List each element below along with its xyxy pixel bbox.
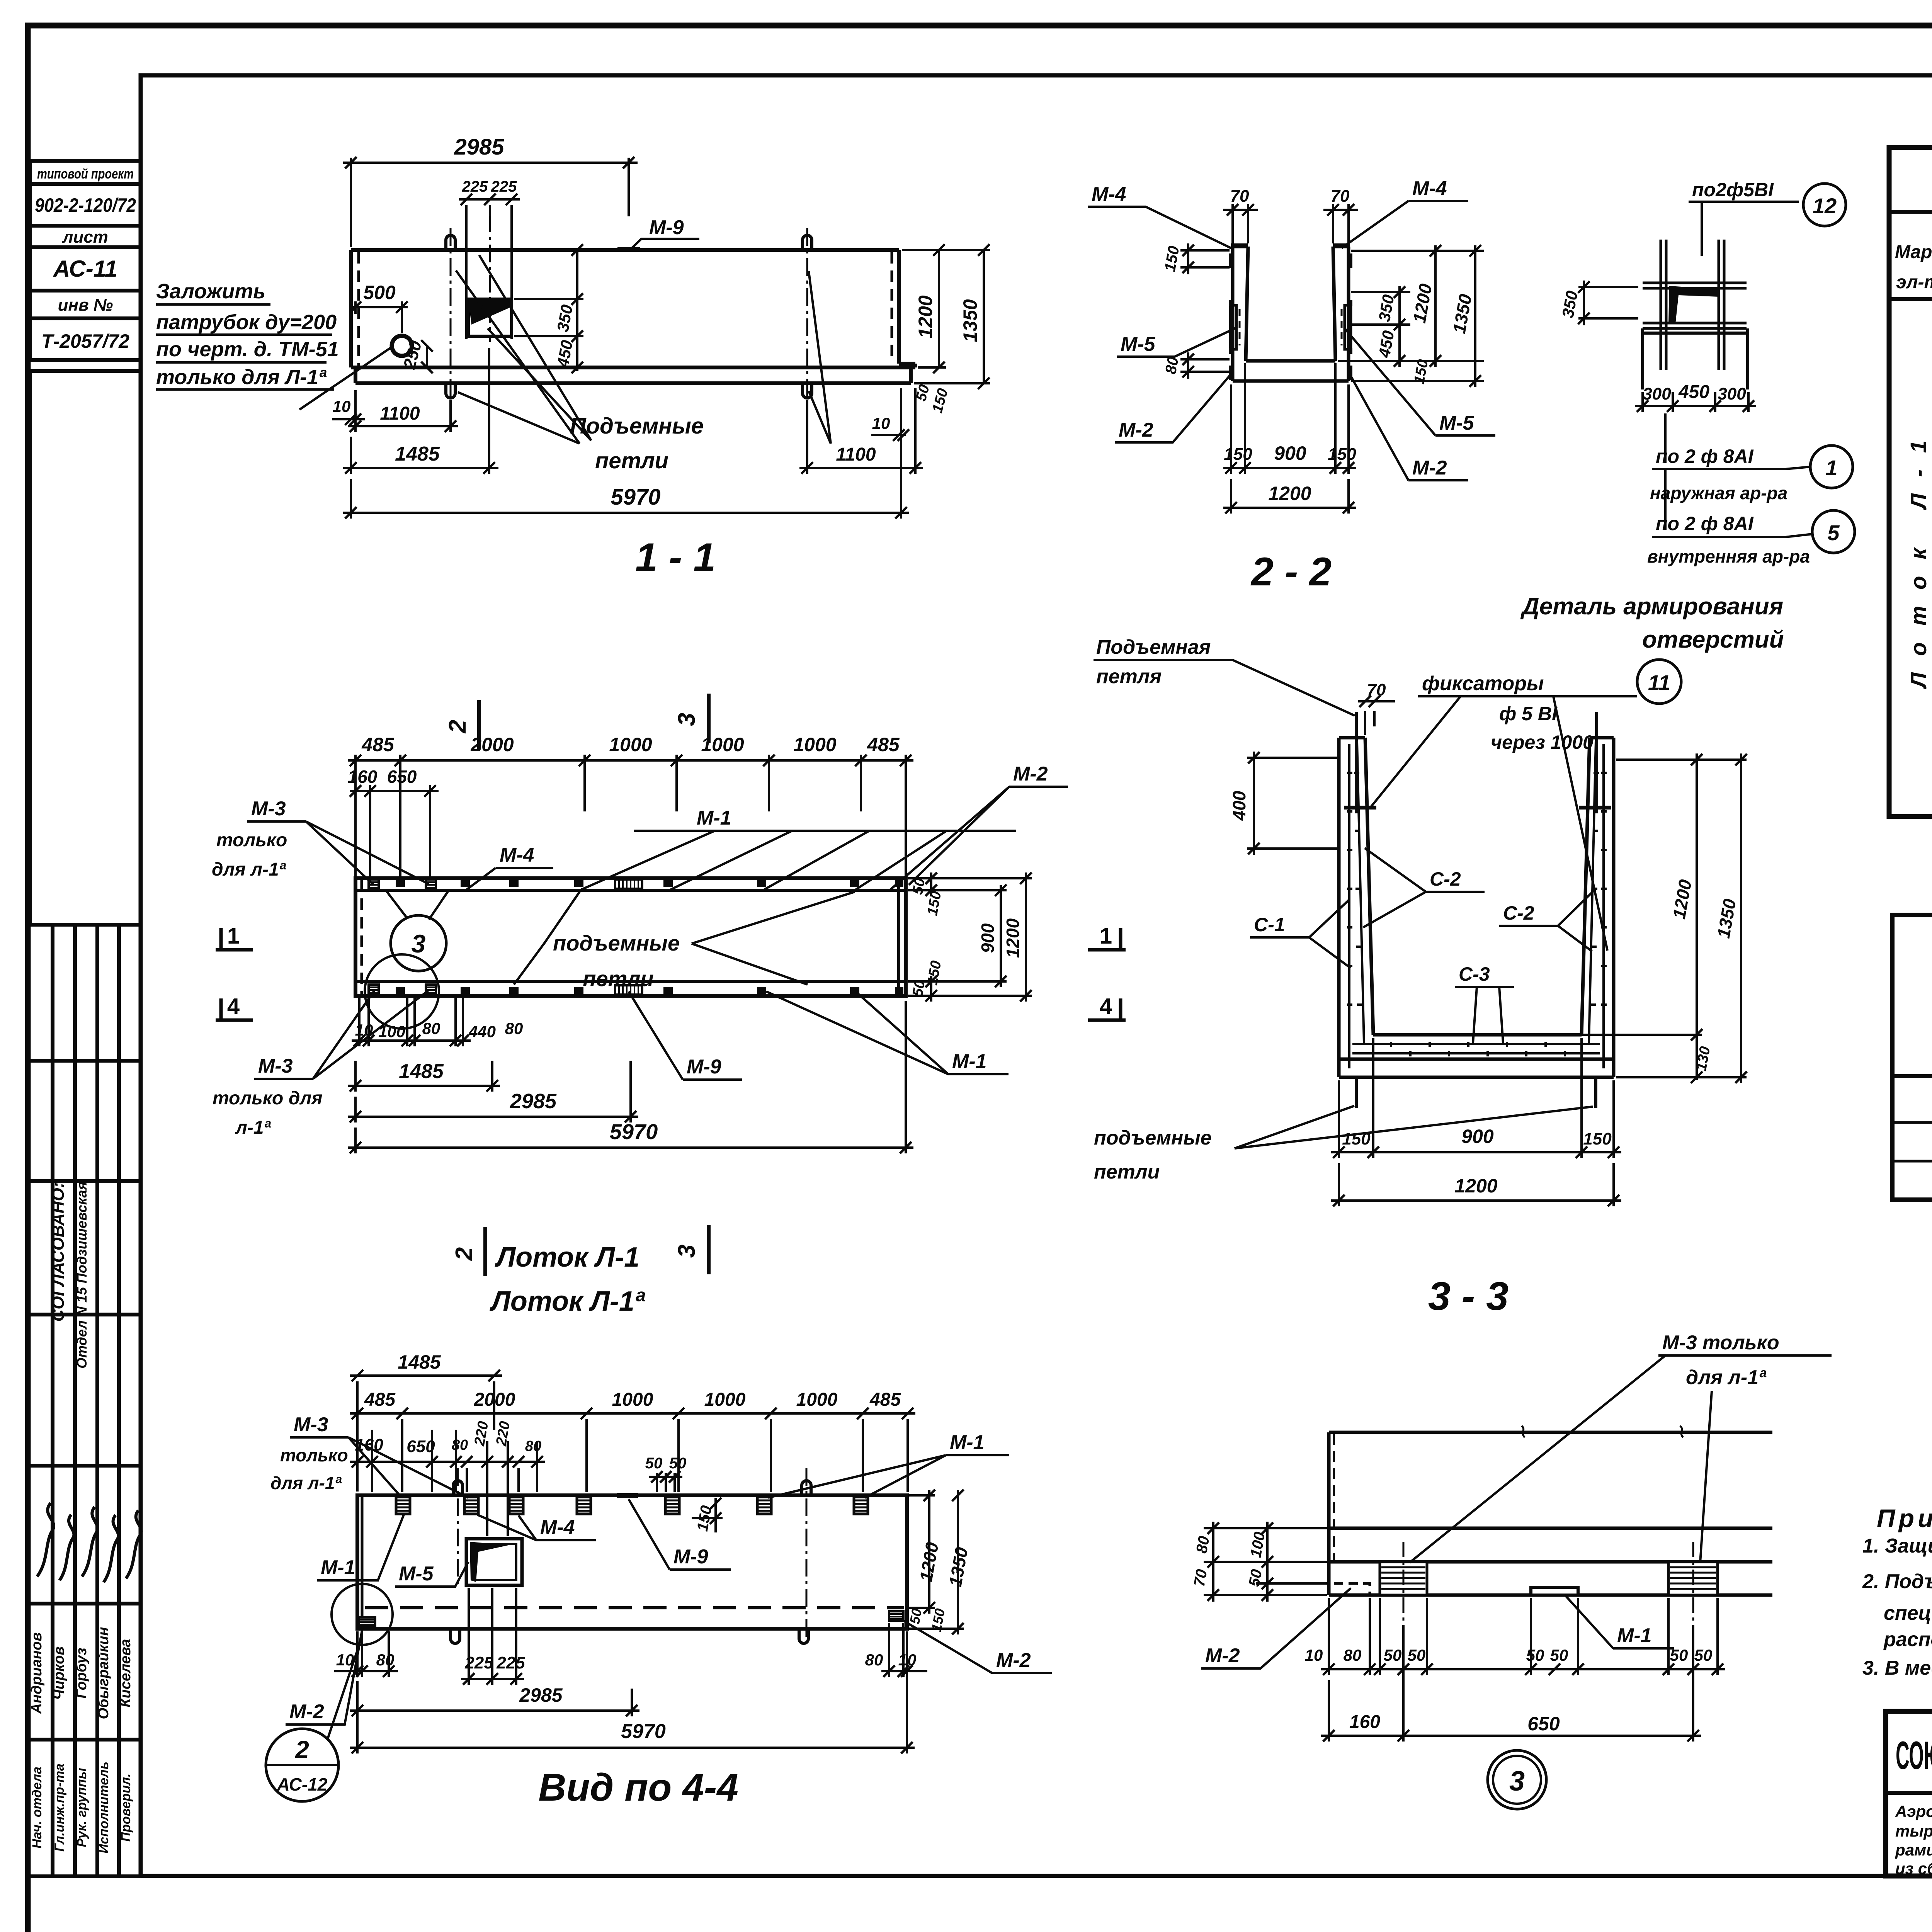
- svg-text:М-1: М-1: [952, 1050, 987, 1073]
- svg-text:3: 3: [673, 713, 700, 726]
- dims 300 450 300: [1635, 392, 1756, 412]
- svg-text:отверстий: отверстий: [1642, 626, 1784, 653]
- svg-text:485: 485: [869, 1389, 901, 1410]
- svg-text:М-1: М-1: [950, 1431, 985, 1454]
- svg-text:М-5: М-5: [1439, 412, 1475, 434]
- dims 150 80 left: [1180, 243, 1230, 379]
- dims 350 450 at plate: [514, 244, 583, 373]
- svg-text:М-2: М-2: [1412, 457, 1447, 479]
- svg-text:распора на стенки лотка.: распора на стенки лотка.: [1883, 1628, 1932, 1651]
- svg-text:1200: 1200: [1003, 918, 1023, 958]
- svg-text:3: 3: [1509, 1766, 1525, 1797]
- svg-text:М-1: М-1: [321, 1556, 355, 1579]
- svg-text:50: 50: [910, 877, 929, 896]
- svg-text:1000: 1000: [701, 734, 744, 755]
- svg-text:петли: петли: [1094, 1161, 1160, 1183]
- M-5 opening square: [466, 1539, 522, 1585]
- table: Выборка арматурных и закладных изделий: [1889, 146, 1932, 816]
- svg-text:1100: 1100: [836, 444, 876, 465]
- svg-text:для л-1ª: для л-1ª: [212, 859, 286, 880]
- svg-text:1000: 1000: [704, 1389, 746, 1410]
- svg-text:80: 80: [1193, 1535, 1213, 1554]
- svg-text:СОЮЗВОДОКАНАЛПРОЕКТ: СОЮЗВОДОКАНАЛПРОЕКТ: [1896, 1733, 1932, 1777]
- svg-text:1: 1: [227, 923, 240, 949]
- svg-text:70: 70: [1191, 1568, 1211, 1588]
- svg-text:2. Подъем лотка за верхние: 2. Подъем лотка за верхние петли осущест…: [1862, 1570, 1932, 1593]
- svg-text:902-2-120/72: 902-2-120/72: [35, 194, 136, 216]
- M-9 mark on top edge: [617, 247, 640, 252]
- svg-text:2: 2: [444, 720, 471, 733]
- svg-text:АС-12: АС-12: [277, 1774, 328, 1794]
- svg-text:патрубок ду=200: патрубок ду=200: [156, 311, 337, 334]
- svg-text:по2ф5ВІ: по2ф5ВІ: [1692, 179, 1774, 201]
- svg-text:Проверил.: Проверил.: [119, 1774, 133, 1842]
- beam outline 1-1: [351, 250, 915, 383]
- M-2 plate in node circle: [359, 1617, 375, 1626]
- svg-text:450: 450: [1678, 382, 1709, 402]
- svg-text:4: 4: [227, 994, 240, 1019]
- svg-text:Вид по 4-4: Вид по 4-4: [538, 1766, 738, 1809]
- svg-text:С-2: С-2: [1503, 902, 1534, 924]
- svg-text:650: 650: [406, 1437, 435, 1456]
- table: Выборка стали на 1 элемент: [1892, 886, 1932, 1200]
- bottom small dims 10 100 80 440 80: [352, 998, 471, 1046]
- svg-text:Заложить: Заложить: [156, 280, 265, 303]
- svg-text:10: 10: [333, 397, 351, 415]
- walls and slab outline 2-2: [1233, 247, 1349, 381]
- centerlines: [451, 214, 807, 431]
- sidebar titles: [30, 1762, 133, 1854]
- notes: Примечания: [1862, 1504, 1932, 1679]
- svg-text:Деталь армирования: Деталь армирования: [1520, 593, 1783, 620]
- svg-text:50: 50: [1694, 1646, 1713, 1664]
- svg-text:для л-1ª: для л-1ª: [1686, 1366, 1767, 1389]
- node circle 2 AC-12: [266, 1729, 338, 1801]
- svg-text:1: 1: [1825, 456, 1837, 480]
- svg-text:из сборного железобетона: из сборного железобетона: [1895, 1859, 1932, 1878]
- svg-text:Марка: Марка: [1895, 242, 1932, 262]
- svg-text:1485: 1485: [398, 1351, 441, 1373]
- svg-text:М-3: М-3: [294, 1413, 328, 1436]
- title block: [1886, 1711, 1932, 1878]
- svg-text:1000: 1000: [793, 734, 836, 755]
- dim 500: [350, 301, 408, 333]
- svg-text:М-4: М-4: [500, 844, 534, 866]
- svg-text:1200: 1200: [1454, 1175, 1497, 1197]
- svg-text:инв №: инв №: [58, 296, 113, 315]
- svg-text:50: 50: [906, 1607, 925, 1626]
- svg-text:М-2: М-2: [996, 1649, 1031, 1672]
- concrete outline 3-3: [1339, 738, 1614, 1077]
- svg-text:по 2 ф 8АІ: по 2 ф 8АІ: [1656, 446, 1754, 467]
- node circle 3 big: [1488, 1750, 1546, 1809]
- svg-text:1200: 1200: [915, 295, 936, 338]
- svg-text:М-4: М-4: [540, 1516, 575, 1539]
- plates on top wall: [369, 879, 903, 889]
- svg-text:АС-11: АС-11: [53, 256, 117, 282]
- svg-text:лист: лист: [62, 228, 108, 247]
- svg-text:485: 485: [361, 734, 395, 755]
- lifting loops 4-4: [453, 1481, 463, 1495]
- centerlines: [458, 1468, 806, 1642]
- svg-text:Лоток Л-1ª: Лоток Л-1ª: [489, 1286, 645, 1317]
- svg-text:150: 150: [1224, 445, 1252, 464]
- svg-text:2 - 2: 2 - 2: [1250, 549, 1332, 594]
- svg-text:2: 2: [295, 1736, 309, 1764]
- svg-text:150: 150: [1328, 445, 1356, 464]
- svg-text:1350: 1350: [959, 299, 981, 342]
- svg-text:485: 485: [867, 734, 900, 755]
- wall mesh C-1 C-2: [1347, 741, 1607, 1068]
- view 4-4: [266, 1351, 1052, 1809]
- slab lines: [1329, 1432, 1772, 1595]
- svg-text:Нач. отдела: Нач. отдела: [30, 1767, 44, 1849]
- svg-text:5970: 5970: [611, 485, 660, 510]
- detail node 3: bottom slab corner: [1191, 1332, 1832, 1809]
- right side dims 50 150 900 1200: [908, 872, 1032, 1002]
- svg-text:160: 160: [348, 767, 378, 787]
- dim 350 detail: [1578, 281, 1638, 325]
- svg-text:80: 80: [1162, 355, 1182, 375]
- svg-text:наружная ар-ра: наружная ар-ра: [1650, 483, 1787, 503]
- svg-text:2000: 2000: [474, 1389, 515, 1410]
- svg-text:650: 650: [387, 767, 417, 787]
- svg-text:900: 900: [1274, 442, 1306, 464]
- svg-text:СОГЛАСОВАНО:: СОГЛАСОВАНО:: [49, 1182, 68, 1322]
- svg-text:только: только: [216, 830, 287, 850]
- svg-text:М-9: М-9: [649, 216, 684, 239]
- chain 485 2000 1000 1000 1000 485: [350, 1408, 915, 1492]
- svg-text:300: 300: [1643, 384, 1671, 403]
- svg-text:500: 500: [363, 282, 396, 303]
- svg-text:Аэротенки-смесители че-: Аэротенки-смесители че-: [1895, 1802, 1932, 1820]
- dims 160 650: [1321, 1625, 1701, 1742]
- svg-text:М-5: М-5: [1121, 333, 1156, 355]
- svg-text:80: 80: [525, 1438, 541, 1454]
- plan outline: [355, 878, 906, 996]
- svg-text:5970: 5970: [621, 1720, 666, 1743]
- svg-text:фиксаторы: фиксаторы: [1422, 672, 1544, 695]
- rebar bars: [1661, 240, 1724, 370]
- svg-text:Лоток Л-1: Лоток Л-1: [495, 1242, 639, 1273]
- node circle around bottom-left plate: [365, 954, 439, 1029]
- form joints dashed: [359, 252, 892, 366]
- beam outline 4-4: [357, 1495, 907, 1629]
- svg-text:М-1: М-1: [1617, 1624, 1652, 1647]
- sidebar box texts: [35, 166, 136, 352]
- svg-text:3: 3: [673, 1245, 700, 1258]
- svg-text:Примечания:: Примечания:: [1877, 1504, 1932, 1532]
- svg-text:80: 80: [865, 1651, 883, 1669]
- svg-text:150: 150: [1583, 1129, 1612, 1148]
- svg-text:тырехкоридорные с разме-: тырехкоридорные с разме-: [1895, 1822, 1932, 1840]
- svg-text:1000: 1000: [609, 734, 652, 755]
- svg-text:только: только: [280, 1445, 348, 1465]
- leader from plate M-5 down: [479, 255, 591, 440]
- hatched plates on top edge: [396, 1497, 410, 1514]
- svg-text:М-9: М-9: [687, 1056, 721, 1078]
- svg-text:М-3: М-3: [251, 798, 286, 820]
- svg-text:ф 5 ВІ: ф 5 ВІ: [1499, 703, 1558, 724]
- svg-text:только для: только для: [213, 1088, 323, 1109]
- bottom dims 150 900 150 / 1200: [1331, 1038, 1621, 1206]
- svg-text:440: 440: [468, 1022, 496, 1041]
- svg-text:3 - 3: 3 - 3: [1428, 1274, 1509, 1319]
- hatched M-3 plates: [1380, 1562, 1427, 1595]
- svg-text:М-9: М-9: [673, 1546, 708, 1568]
- svg-text:Подъемная: Подъемная: [1096, 636, 1211, 658]
- svg-text:Исполнитель: Исполнитель: [97, 1762, 111, 1854]
- left dims 80 100 70 50: [1204, 1522, 1327, 1602]
- svg-text:эл-та: эл-та: [1896, 272, 1932, 293]
- svg-text:2000: 2000: [470, 734, 514, 755]
- plan view of trough: [212, 694, 1126, 1317]
- svg-text:петли: петли: [583, 966, 653, 991]
- right dims 1200 1350 50 150: [906, 1490, 964, 1634]
- right side dims 350 450 1200 1350 150: [1338, 245, 1484, 387]
- svg-text:для л-1ª: для л-1ª: [270, 1473, 342, 1493]
- svg-text:1000: 1000: [796, 1389, 838, 1410]
- svg-text:Чирков: Чирков: [51, 1646, 67, 1700]
- svg-text:50: 50: [1550, 1646, 1568, 1664]
- svg-text:5970: 5970: [610, 1119, 658, 1144]
- svg-text:типовой проект: типовой проект: [37, 166, 134, 182]
- dim 400 left: [1247, 752, 1339, 855]
- plates on bottom wall: [369, 985, 903, 995]
- svg-text:1000: 1000: [612, 1389, 653, 1410]
- svg-text:рами коридора 9×5,2× 120: рами коридора 9×5,2× 120: [1895, 1841, 1932, 1859]
- svg-text:Киселева: Киселева: [117, 1639, 134, 1707]
- svg-text:1. Защитный слой бетона - 20: 1. Защитный слой бетона - 20: [1862, 1535, 1932, 1557]
- svg-text:10: 10: [1305, 1646, 1323, 1664]
- dim 225 225: [459, 194, 520, 339]
- svg-text:4: 4: [1100, 994, 1112, 1019]
- svg-text:1 - 1: 1 - 1: [635, 535, 716, 580]
- dim 1485 top: [350, 1370, 502, 1492]
- svg-text:только для Л-1ª: только для Л-1ª: [156, 366, 327, 389]
- svg-text:1485: 1485: [399, 1060, 444, 1083]
- svg-text:М-2: М-2: [1119, 419, 1153, 441]
- svg-text:петли: петли: [595, 448, 668, 473]
- bottom dims 150 900 150 / 1200: [1223, 363, 1356, 514]
- svg-text:Обыграйкин: Обыграйкин: [95, 1627, 112, 1719]
- embedded plate M-5 with weld wedge: [468, 299, 512, 336]
- dim 250: [421, 340, 433, 373]
- svg-text:М-4: М-4: [1092, 183, 1126, 206]
- sidebar rotated approval texts: [49, 1182, 90, 1369]
- svg-text:подъемные: подъемные: [553, 931, 680, 955]
- svg-text:петля: петля: [1096, 665, 1162, 688]
- svg-text:1485: 1485: [395, 443, 440, 465]
- svg-text:400: 400: [1229, 791, 1249, 821]
- sidebar names: [29, 1627, 134, 1719]
- svg-text:подъемные: подъемные: [1094, 1127, 1212, 1149]
- svg-text:л-1ª: л-1ª: [235, 1117, 271, 1138]
- dim 5970: [343, 388, 909, 519]
- note text: Заложить патрубок: [156, 280, 339, 389]
- M-2 plate right end: [889, 1611, 903, 1621]
- svg-text:11: 11: [1648, 670, 1670, 695]
- svg-text:М-2: М-2: [289, 1701, 324, 1723]
- svg-text:1200: 1200: [1268, 483, 1311, 504]
- svg-text:300: 300: [1718, 384, 1746, 403]
- svg-text:485: 485: [364, 1389, 396, 1410]
- svg-text:50: 50: [1246, 1568, 1265, 1588]
- svg-text:900: 900: [1461, 1126, 1494, 1147]
- svg-text:через 1000: через 1000: [1491, 731, 1594, 753]
- dim 1485 plan: [348, 1061, 500, 1092]
- detail: Деталь армирования отверстий: [1520, 179, 1855, 653]
- svg-text:10: 10: [872, 414, 890, 432]
- svg-text:225: 225: [491, 178, 517, 195]
- svg-text:1: 1: [1100, 923, 1112, 949]
- svg-text:С-2: С-2: [1430, 868, 1461, 890]
- top dim chain 485 2000 1000 1000 1000 485: [348, 755, 913, 877]
- svg-text:80: 80: [505, 1019, 523, 1037]
- svg-text:80: 80: [452, 1437, 468, 1453]
- concrete edges: [1643, 328, 1748, 389]
- dim 1485: [343, 348, 498, 474]
- node circle 3: [391, 915, 446, 971]
- svg-text:80: 80: [1344, 1646, 1362, 1664]
- section cut marks 2 and 3: [479, 694, 709, 1276]
- svg-text:160: 160: [1349, 1712, 1380, 1732]
- svg-text:по черт. д. ТМ-51: по черт. д. ТМ-51: [156, 338, 339, 361]
- dim 70 tops: [1223, 204, 1358, 243]
- svg-text:М-3: М-3: [258, 1055, 293, 1077]
- loop bars and fixators: [1356, 712, 1597, 1108]
- svg-text:50: 50: [1384, 1646, 1402, 1664]
- svg-text:Отдел N 15 Подзишевская: Отдел N 15 Подзишевская: [74, 1182, 90, 1369]
- svg-text:900: 900: [978, 923, 998, 953]
- svg-text:2985: 2985: [519, 1684, 563, 1706]
- svg-text:1100: 1100: [380, 403, 420, 424]
- svg-text:Рук. группы: Рук. группы: [75, 1768, 89, 1847]
- pipe hole: [392, 336, 412, 356]
- dims 160 650 / 80 220 220 80: [350, 1430, 545, 1536]
- svg-text:2985: 2985: [454, 134, 504, 160]
- dim 1100 left: [348, 390, 458, 432]
- right vertical dims 1200 1350: [902, 244, 990, 389]
- svg-text:М-3 только: М-3 только: [1662, 1332, 1779, 1354]
- svg-text:225: 225: [464, 1653, 493, 1672]
- sidebar signatures: [37, 1503, 141, 1582]
- svg-text:70: 70: [1331, 187, 1350, 206]
- svg-text:Подъемные: Подъемные: [570, 413, 704, 439]
- svg-text:50: 50: [645, 1455, 663, 1472]
- svg-text:3. В местах отверстий армату: 3. В местах отверстий арматуру сеток обр…: [1862, 1657, 1932, 1679]
- svg-text:225: 225: [496, 1653, 525, 1672]
- svg-text:М-2: М-2: [1013, 763, 1048, 785]
- dims 50 50 / 150: [649, 1471, 723, 1532]
- svg-text:внутренняя ар-ра: внутренняя ар-ра: [1647, 546, 1810, 566]
- svg-text:5: 5: [1827, 520, 1840, 545]
- dim 5970 plan: [348, 1001, 913, 1153]
- svg-text:Т-2057/72: Т-2057/72: [41, 330, 129, 352]
- svg-text:50: 50: [1408, 1646, 1426, 1664]
- bottom dims 10 80 / 225 225 / 2985 / 5970 / 80 10: [334, 1588, 927, 1753]
- right dims 1200 1350 130: [1582, 753, 1747, 1083]
- svg-text:Гл.инж.пр-та: Гл.инж.пр-та: [52, 1764, 67, 1852]
- view 1-1: longitudinal section: [156, 134, 990, 580]
- svg-text:2: 2: [451, 1247, 478, 1261]
- centerlines: [1403, 1542, 1693, 1621]
- embedded plate marks 2-2 right wall: [1333, 243, 1350, 248]
- svg-text:С-3: С-3: [1459, 963, 1490, 985]
- section 3-3: U cross-section with reinforcement: [1094, 636, 1747, 1319]
- view 2-2: cross section: [1088, 177, 1495, 594]
- bottom dims row: [1321, 1598, 1725, 1675]
- svg-text:М-2: М-2: [1205, 1645, 1240, 1667]
- svg-text:2985: 2985: [510, 1090, 557, 1113]
- svg-text:по 2 ф 8АІ: по 2 ф 8АІ: [1656, 513, 1754, 534]
- sidebar stamp column: [30, 161, 141, 1876]
- lifting loops 1-1: [446, 235, 455, 250]
- svg-text:12: 12: [1813, 194, 1837, 218]
- svg-text:650: 650: [1527, 1713, 1560, 1735]
- dim 2985 plan: [348, 1061, 638, 1122]
- svg-text:3: 3: [412, 929, 426, 958]
- dim 2985: [343, 157, 638, 247]
- embedded plate marks 2-2 left wall: [1231, 243, 1248, 248]
- dim 1100 right: [799, 388, 923, 474]
- svg-text:Андрианов: Андрианов: [29, 1633, 45, 1714]
- dashed M-2 plate: [1334, 1583, 1370, 1595]
- svg-text:10: 10: [898, 1651, 917, 1669]
- svg-text:М-5: М-5: [399, 1563, 434, 1585]
- svg-text:50: 50: [669, 1455, 687, 1472]
- svg-text:225: 225: [462, 178, 488, 195]
- M-1 plate: [1531, 1587, 1578, 1595]
- svg-text:50: 50: [1526, 1646, 1544, 1664]
- svg-text:специальной траверсой не до: специальной траверсой не допуская переда…: [1884, 1602, 1932, 1624]
- dim 160 650: [350, 785, 439, 877]
- svg-text:М-1: М-1: [697, 807, 731, 829]
- svg-text:80: 80: [422, 1019, 440, 1037]
- svg-text:80: 80: [376, 1651, 395, 1669]
- svg-text:С-1: С-1: [1254, 914, 1285, 935]
- svg-text:Горбуз: Горбуз: [73, 1648, 90, 1698]
- floor mesh C-3: [1352, 1042, 1600, 1056]
- svg-text:70: 70: [1230, 187, 1249, 206]
- svg-text:М-4: М-4: [1412, 177, 1447, 200]
- corner plate wedge: [1668, 286, 1719, 324]
- M-9 mark: [617, 1493, 638, 1498]
